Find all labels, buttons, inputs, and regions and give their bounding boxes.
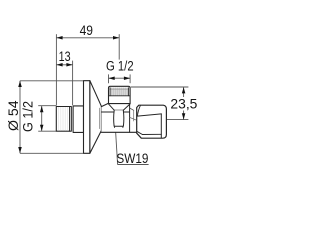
wall thread hatch [59,107,68,130]
arrow G1/2 top left [109,76,115,80]
arrow G1/2 left down [40,125,44,131]
valve drawing [56,81,166,154]
body slab fill [101,103,129,132]
extension line top of Ø54 [20,80,84,82]
arrow 23,5 down [182,113,186,119]
square foot right [122,126,124,127]
top outlet cylinder G1/2 [109,86,131,103]
outlet thread hatch [111,88,127,96]
tick right G 1/2 top [129,74,131,83]
svg-text:SW19: SW19 [116,150,148,166]
body top-left chamfer [101,103,108,106]
middle flange block [73,106,83,132]
extension line top of 23,5 [131,86,189,88]
extension line bottom of Ø54 [20,152,84,154]
extension line top G 1/2 left [38,105,56,107]
arrow 49 right [113,36,119,40]
arrow 49 left [56,36,62,40]
dimension lines group [20,34,188,164]
body right edge [129,104,131,132]
body top face line left [102,111,115,113]
extension line bottom of 23,5 (axis) [166,119,188,121]
stub right edge [133,110,135,121]
rosette rim [84,81,90,154]
dim 49 line [56,37,119,39]
nut bottom face line [142,133,161,135]
arrow G1/2 left up [40,106,44,112]
outlet inner right vertical [128,88,130,96]
dim G 1/2 left vertical line [41,106,43,131]
outlet stub strip [130,108,134,110]
cone inner waist line [99,108,101,128]
outlet inner left vertical [109,88,111,96]
square foot left [114,126,116,127]
wall thread G1/2 male (left block) [56,107,71,132]
wall thread inner right edge [69,107,71,132]
leader line SW19 [115,126,117,164]
neck bottom line [114,109,123,111]
dim Ø54 vertical line [19,81,21,153]
nut bottom-left chamfer line [137,131,142,134]
extension line right of 13 [72,61,74,106]
outlet cap inner top line [109,88,130,90]
arrow 13 right [66,63,72,67]
svg-text:Ø 54: Ø 54 [5,100,21,131]
stub chamfer wedge [130,117,136,120]
nut top-left facet line [137,105,140,116]
outlet cap bottom line [109,95,130,97]
rosette bell cone [90,81,102,154]
outlet thread band gray [109,88,129,96]
compression nut SW-type outline [137,105,167,138]
svg-text:49: 49 [80,22,94,38]
underline SW19 [117,164,148,166]
spindle square [114,110,124,126]
arrow G1/2 top right [124,76,130,80]
nut top face line [137,114,161,116]
arrow 23,5 up [182,87,186,93]
white mask behind 23,5 text [172,97,197,111]
dim 23,5 vertical line [183,87,185,119]
svg-text:G 1/2: G 1/2 [106,59,134,74]
arrowheads [18,36,185,153]
neck slant left [109,104,115,110]
body top face line right [123,111,129,113]
arrow Ø54 up [18,81,22,87]
neck slant right [123,104,130,110]
extension line bottom G 1/2 left [38,130,56,132]
svg-text:13: 13 [59,48,71,64]
extension line right of 49 [118,34,120,59]
extension line left (49/13 common, wall plane) [55,34,57,105]
body bottom edge [101,131,136,133]
arrow 13 left [56,63,62,67]
svg-text:23,5: 23,5 [170,96,197,111]
nut right face vertical [160,114,162,138]
tick left G 1/2 top [108,74,110,83]
dim G 1/2 top line [109,77,131,79]
dim 13 line [56,64,72,66]
arrow Ø54 down [18,147,22,153]
svg-text:G 1/2: G 1/2 [20,101,35,132]
